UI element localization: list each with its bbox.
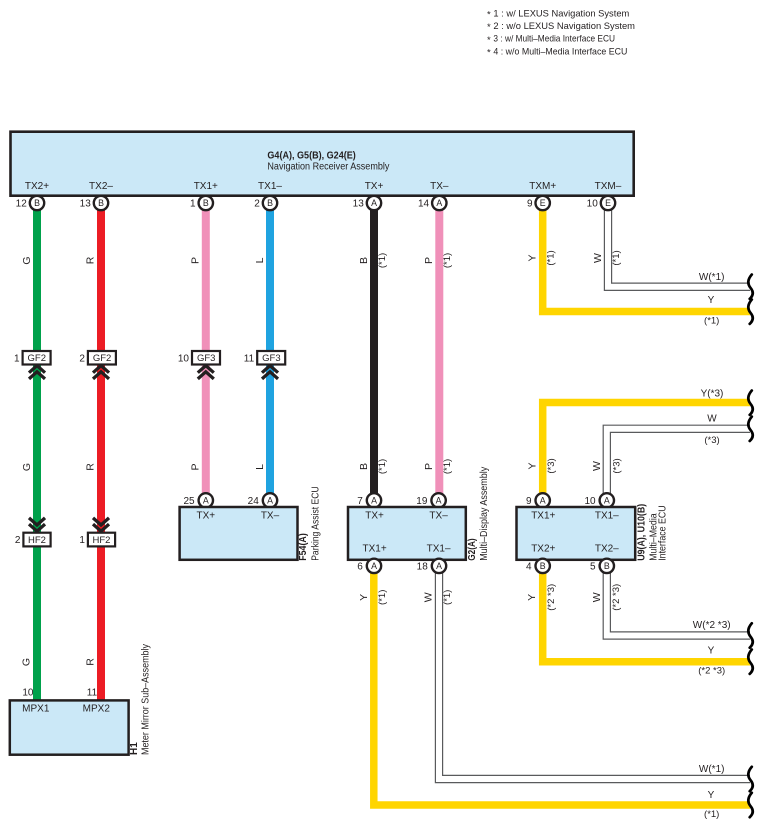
connector HF2 pin1 (79, 533, 115, 547)
svg-text:TXM–: TXM– (595, 181, 622, 192)
svg-text:G2(A): G2(A) (467, 538, 478, 561)
wire label P top (190, 257, 202, 264)
wire label P2 top (423, 257, 435, 264)
F54 vertical title F54(A) (298, 533, 309, 561)
H1 vertical title Meter Mirror Sub-Assembly (141, 644, 152, 755)
pin label TXM+ (529, 181, 556, 192)
svg-text:TX1+: TX1+ (194, 181, 218, 192)
svg-text:18: 18 (417, 562, 429, 573)
G2 pin label TX1+ (363, 543, 387, 554)
label W(*1) bottom right run (699, 764, 725, 775)
svg-text:5: 5 (590, 562, 596, 573)
svg-text:TX+: TX+ (196, 511, 215, 522)
U9 pin label TX1+ (531, 511, 555, 522)
svg-text:GF3: GF3 (197, 353, 215, 364)
label W(*2 *3) right run (693, 620, 731, 631)
wire label W top (592, 253, 604, 263)
svg-text:4: 4 (526, 562, 532, 573)
svg-text:Parking Assist ECU: Parking Assist ECU (311, 486, 322, 561)
F54 pin label TX+ (196, 511, 215, 522)
H1 pin number 10 (22, 688, 34, 699)
svg-text:P: P (190, 257, 202, 264)
wire label W below U9 pin5 (591, 592, 603, 602)
wire label R top (85, 256, 97, 264)
wire label (*3) white mid (611, 458, 622, 473)
svg-text:2: 2 (15, 535, 21, 546)
wire W (white) G2 pin18A to right edge (435, 566, 750, 783)
svg-text:A: A (540, 495, 546, 505)
wire label P2 mid (423, 463, 435, 470)
svg-text:B: B (203, 198, 209, 208)
U9 pin label TX2- (595, 543, 619, 554)
wire label G top (21, 256, 33, 264)
break squiggle yellow Y(*3) (748, 391, 752, 415)
svg-text:11: 11 (87, 688, 98, 699)
svg-text:7: 7 (357, 496, 363, 507)
break squiggle white (*3) (748, 417, 752, 441)
label W right run (707, 414, 717, 425)
svg-text:(*1): (*1) (704, 809, 719, 820)
svg-text:(*1): (*1) (442, 590, 453, 605)
connector GF3 pin11 (244, 351, 285, 365)
svg-text:A: A (203, 495, 209, 505)
svg-text:G4(A), G5(B), G24(E): G4(A), G5(B), G24(E) (267, 151, 355, 162)
chevron down HF2 pin2 (29, 518, 45, 531)
svg-text:MPX1: MPX1 (22, 704, 50, 715)
G2 circle 18 A (417, 559, 447, 573)
svg-text:GF2: GF2 (93, 353, 111, 364)
label Y top-right run (708, 295, 715, 306)
svg-text:Y(*3): Y(*3) (701, 389, 724, 400)
wire P (pink) pin1B to F54 pin25 (202, 203, 210, 500)
svg-text:(*1): (*1) (442, 459, 453, 474)
svg-text:TX1–: TX1– (427, 543, 451, 554)
label (*3) right run (704, 435, 719, 446)
svg-text:24: 24 (248, 496, 260, 507)
svg-text:A: A (604, 495, 610, 505)
svg-text:A: A (436, 198, 442, 208)
svg-text:13: 13 (353, 199, 365, 210)
svg-text:A: A (267, 495, 273, 505)
svg-text:A: A (436, 495, 442, 505)
svg-text:TX2–: TX2– (595, 543, 619, 554)
wire label (*1) black mid (377, 459, 388, 474)
box G2(A) Multi-Display Assembly (348, 507, 466, 560)
F54 pin label TX- (261, 511, 280, 522)
label W(*1) top-right run (699, 272, 725, 283)
wire label (*1) pink top (442, 253, 453, 268)
svg-text:*: * (487, 10, 491, 21)
svg-text:10: 10 (587, 199, 599, 210)
svg-text:TX+: TX+ (365, 511, 384, 522)
svg-text:A: A (371, 561, 377, 571)
pin label TX2+ (25, 181, 49, 192)
pin 2 circle B (254, 196, 277, 210)
svg-text:Y: Y (526, 594, 538, 601)
svg-text:1: 1 (14, 354, 20, 365)
svg-text:GF2: GF2 (28, 353, 46, 364)
pin 1 circle B (190, 196, 213, 210)
svg-text:TX2+: TX2+ (531, 543, 555, 554)
wire label G mid (21, 463, 33, 471)
G2 pin label TX- (429, 511, 448, 522)
connector GF3 pin10 (178, 351, 220, 365)
svg-text:P: P (423, 463, 435, 470)
wire label (*1) below G2 pin18 (442, 590, 453, 605)
svg-text:TXM+: TXM+ (529, 181, 556, 192)
svg-text:A: A (371, 198, 377, 208)
wire W (white) U9 pin10A to right edge (603, 425, 750, 494)
pin 13 circle A (353, 196, 382, 210)
svg-text:(*3): (*3) (611, 458, 622, 473)
wire label Y top (527, 254, 539, 261)
svg-text:W(*2 *3): W(*2 *3) (693, 620, 731, 631)
U9 circle 4 B (526, 559, 550, 573)
wire B (black) pin13A to G2 pin7 (370, 203, 378, 500)
break squiggle yellow bottom (748, 793, 752, 817)
svg-text:H1: H1 (129, 742, 140, 755)
wire label (*2 *3) below U9 pin4 (546, 584, 557, 611)
svg-text:Y: Y (358, 594, 370, 601)
svg-text:W: W (592, 253, 604, 263)
svg-text:Meter Mirror Sub–Assembly: Meter Mirror Sub–Assembly (141, 644, 152, 755)
svg-text:Y: Y (527, 462, 539, 469)
svg-text:F54(A): F54(A) (298, 533, 309, 561)
wire label (*1) yellow top (546, 250, 557, 265)
wire label Y below U9 pin4 (526, 594, 538, 601)
wire label R mid (85, 463, 97, 471)
box H1 Meter Mirror Sub-Assembly (10, 700, 129, 754)
svg-text:TX1–: TX1– (258, 181, 282, 192)
legend note *2 (487, 21, 635, 33)
svg-text:Y: Y (708, 295, 715, 306)
svg-text:10: 10 (178, 354, 190, 365)
wire label (*1) pink mid (442, 459, 453, 474)
svg-text:*: * (487, 22, 491, 33)
svg-text:14: 14 (418, 199, 430, 210)
svg-text:(*1): (*1) (704, 316, 719, 327)
wire G (green) pin12B to H1 MPX1 (33, 203, 41, 702)
svg-text:(*2 *3): (*2 *3) (698, 666, 725, 677)
legend note *4 (487, 47, 628, 59)
pin 13 circle B (80, 196, 109, 210)
wire label (*1) below G2 pin6 (377, 590, 388, 605)
svg-text:L: L (254, 464, 266, 470)
wire Y (yellow) U9 pin4B to right edge (543, 566, 750, 662)
svg-text:1 : w/ LEXUS Navigation System: 1 : w/ LEXUS Navigation System (493, 8, 629, 19)
wire label Y mid (527, 462, 539, 469)
svg-text:HF2: HF2 (93, 535, 111, 546)
svg-text:(*3): (*3) (704, 435, 719, 446)
svg-text:A: A (436, 561, 442, 571)
pin label TXM- (595, 181, 622, 192)
break squiggle white bottom (748, 767, 752, 791)
svg-text:W: W (591, 461, 603, 471)
break squiggle white (*2 *3) (748, 623, 752, 647)
wire Y (yellow) pin9E to right edge (543, 203, 750, 312)
label (*1) top-right run (704, 316, 719, 327)
wire label L top (254, 257, 266, 263)
svg-text:(*1): (*1) (377, 459, 388, 474)
svg-text:Navigation Receiver Assembly: Navigation Receiver Assembly (267, 161, 389, 172)
svg-text:R: R (85, 658, 97, 666)
svg-text:2: 2 (254, 199, 260, 210)
svg-text:13: 13 (80, 199, 92, 210)
svg-text:(*1): (*1) (377, 253, 388, 268)
svg-text:W: W (707, 414, 717, 425)
box U9(A),U10(B) Multi-Media Interface ECU (517, 507, 636, 560)
svg-text:TX2+: TX2+ (25, 181, 49, 192)
wire label Y below G2 pin6 (358, 594, 370, 601)
box F54(A) Parking Assist ECU (180, 507, 298, 560)
break squiggle yellow (*2 *3) (748, 650, 752, 674)
svg-text:W: W (591, 592, 603, 602)
label Y(*3) right run (701, 389, 724, 400)
svg-text:B: B (267, 198, 273, 208)
svg-text:9: 9 (527, 199, 533, 210)
pin label TX+ (365, 181, 384, 192)
G2 circle 7 A (357, 493, 381, 507)
U9 pin label TX1- (595, 511, 619, 522)
svg-text:R: R (85, 256, 97, 264)
wire label L mid (254, 464, 266, 470)
svg-text:*: * (487, 35, 491, 46)
G2 circle 6 A (357, 559, 381, 573)
wire label B top (358, 257, 370, 264)
wire label R bottom (85, 658, 97, 666)
svg-text:B: B (358, 257, 370, 264)
wire R (red) pin13B to H1 MPX2 (97, 203, 105, 702)
svg-text:B: B (98, 198, 104, 208)
U9 circle 10 A (584, 493, 614, 507)
chevron up GF3 pin11 (262, 366, 278, 379)
svg-text:P: P (423, 257, 435, 264)
wire label B mid (358, 463, 370, 470)
pin label TX1+ (194, 181, 218, 192)
H1 pin number 11 (87, 688, 98, 699)
svg-text:Y: Y (708, 646, 715, 657)
svg-text:TX1+: TX1+ (363, 543, 387, 554)
svg-text:Multi–Display Assembly: Multi–Display Assembly (479, 467, 490, 561)
wire label P mid (190, 463, 202, 470)
U9 vertical title Multi-Media (649, 513, 660, 561)
svg-text:25: 25 (183, 496, 195, 507)
wire label W mid (591, 461, 603, 471)
pin 14 circle A (418, 196, 447, 210)
wire label (*3) yellow mid (546, 458, 557, 473)
svg-text:TX1+: TX1+ (531, 511, 555, 522)
wire W (white) pin10E to right edge (604, 203, 750, 290)
wire Y (yellow) G2 pin6A to right edge (374, 566, 750, 805)
svg-text:GF3: GF3 (262, 353, 280, 364)
wire L (light blue) pin2B to F54 pin24 (266, 203, 274, 500)
svg-text:2: 2 (79, 354, 85, 365)
U9 vertical title U9(A), U10(B) (636, 504, 647, 561)
U9 circle 5 B (590, 559, 614, 573)
pin 9 circle E (527, 196, 550, 210)
title G4(A), G5(B), G24(E) (267, 151, 355, 162)
chevron up GF2 pin2 (93, 366, 109, 379)
break squiggle yellow top (748, 300, 752, 324)
chevron up GF2 pin1 (29, 366, 45, 379)
wire label (*1) black top (377, 253, 388, 268)
title Navigation Receiver Assembly (267, 161, 389, 172)
svg-text:W(*1): W(*1) (699, 272, 725, 283)
wire Y (yellow) U9 pin9A to right edge (543, 403, 750, 495)
U9 circle 9 A (526, 493, 550, 507)
H1 pin label MPX2 (83, 704, 111, 715)
svg-text:W: W (423, 592, 435, 602)
F54 circle 25 A (183, 493, 213, 507)
svg-text:(*1): (*1) (546, 250, 557, 265)
wire P (pink) pin14A to G2 pin19 (435, 203, 443, 500)
legend note *1 (487, 8, 629, 20)
svg-text:11: 11 (244, 354, 255, 365)
svg-text:TX–: TX– (429, 511, 448, 522)
main box G4/G5/G24 Navigation Receiver Assembly (11, 132, 634, 196)
legend note *3 (487, 34, 615, 46)
svg-text:W(*1): W(*1) (699, 764, 725, 775)
svg-text:10: 10 (584, 496, 596, 507)
svg-text:R: R (85, 463, 97, 471)
wire label (*2 *3) below U9 pin5 (611, 584, 622, 611)
svg-text:A: A (371, 495, 377, 505)
svg-text:U9(A), U10(B): U9(A), U10(B) (636, 504, 647, 561)
svg-text:TX–: TX– (261, 511, 280, 522)
G2 vertical title G2(A) (467, 538, 478, 561)
F54 vertical title Parking Assist ECU (311, 486, 322, 561)
chevron down HF2 pin1 (93, 518, 109, 531)
wire W (white) U9 pin5B to right edge (603, 566, 750, 639)
U9 vertical title Interface ECU (658, 505, 669, 561)
svg-text:(*2 *3): (*2 *3) (546, 584, 557, 611)
svg-text:TX2–: TX2– (89, 181, 113, 192)
svg-text:1: 1 (190, 199, 196, 210)
wire label G bottom (21, 658, 33, 666)
svg-text:P: P (190, 463, 202, 470)
svg-text:3 : w/ Multi–Media Interface E: 3 : w/ Multi–Media Interface ECU (493, 34, 615, 45)
svg-text:G: G (21, 256, 33, 264)
svg-text:G: G (21, 463, 33, 471)
label (*2 *3) right run (698, 666, 725, 677)
G2 vertical title Multi-Display Assembly (479, 467, 490, 561)
svg-text:(*1): (*1) (377, 590, 388, 605)
svg-text:B: B (34, 198, 40, 208)
connector HF2 pin2 (15, 533, 51, 547)
pin 10 circle E (587, 196, 616, 210)
svg-text:MPX2: MPX2 (83, 704, 111, 715)
svg-text:B: B (604, 561, 610, 571)
svg-text:(*3): (*3) (546, 458, 557, 473)
G2 pin label TX+ (365, 511, 384, 522)
svg-text:1: 1 (79, 535, 85, 546)
svg-text:2 : w/o LEXUS Navigation Syste: 2 : w/o LEXUS Navigation System (493, 21, 635, 32)
pin label TX2- (89, 181, 113, 192)
svg-text:6: 6 (357, 562, 363, 573)
svg-text:(*1): (*1) (442, 253, 453, 268)
svg-text:L: L (254, 257, 266, 263)
U9 pin label TX2+ (531, 543, 555, 554)
pin label TX1- (258, 181, 282, 192)
svg-text:B: B (540, 561, 546, 571)
H1 vertical title H1 (129, 742, 140, 755)
wire label (*1) white top (611, 250, 622, 265)
chevron up GF3 pin10 (198, 366, 214, 379)
svg-text:12: 12 (16, 199, 28, 210)
svg-text:*: * (487, 48, 491, 59)
svg-text:B: B (358, 463, 370, 470)
svg-text:10: 10 (22, 688, 34, 699)
pin 12 circle B (16, 196, 45, 210)
svg-text:(*2 *3): (*2 *3) (611, 584, 622, 611)
svg-text:(*1): (*1) (611, 250, 622, 265)
svg-text:Y: Y (708, 790, 715, 801)
svg-text:E: E (605, 198, 611, 208)
svg-text:G: G (21, 658, 33, 666)
break squiggle white top (748, 275, 752, 299)
svg-text:HF2: HF2 (28, 535, 46, 546)
svg-text:19: 19 (416, 496, 428, 507)
label Y bottom right run (708, 790, 715, 801)
G2 pin label TX1- (427, 543, 451, 554)
svg-text:TX+: TX+ (365, 181, 384, 192)
svg-text:TX1–: TX1– (595, 511, 619, 522)
connector GF2 pin1 (14, 351, 51, 365)
G2 circle 19 A (416, 493, 446, 507)
F54 circle 24 A (248, 493, 278, 507)
svg-text:TX–: TX– (430, 181, 449, 192)
svg-text:E: E (540, 198, 546, 208)
svg-text:Y: Y (527, 254, 539, 261)
wire label W below G2 pin18 (423, 592, 435, 602)
label (*1) bottom right run (704, 809, 719, 820)
label Y right run mid (708, 646, 715, 657)
pin label TX- (430, 181, 449, 192)
svg-text:4 : w/o Multi–Media Interface: 4 : w/o Multi–Media Interface ECU (493, 47, 627, 58)
svg-text:Interface ECU: Interface ECU (658, 505, 669, 561)
connector GF2 pin2 (79, 351, 116, 365)
H1 pin label MPX1 (22, 704, 50, 715)
svg-text:9: 9 (526, 496, 532, 507)
